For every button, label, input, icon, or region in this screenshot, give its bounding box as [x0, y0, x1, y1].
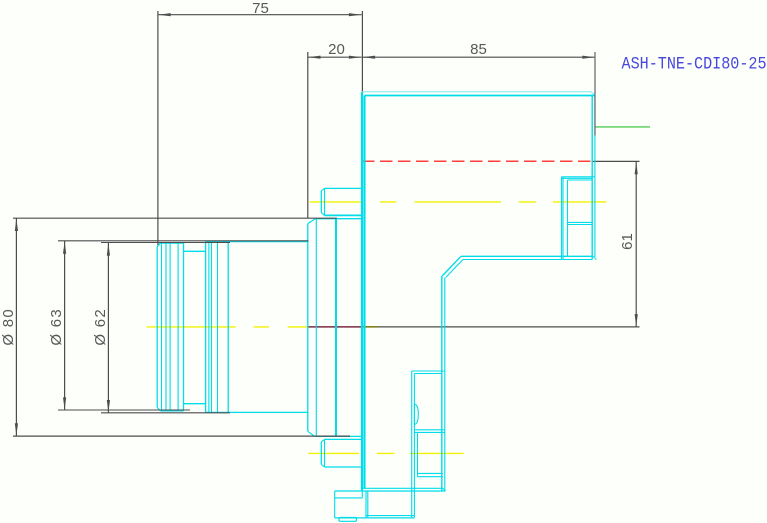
extension line shared 75/20/85 dim	[361, 11, 363, 95]
svg-text:Ø 62: Ø 62	[92, 308, 109, 346]
lower tab centerline yellow dashed	[308, 452, 463, 454]
body bottom edge outer	[363, 487, 443, 489]
dimension line dia62	[107, 243, 109, 413]
svg-text:ASH-TNE-CDI80-250: ASH-TNE-CDI80-250	[622, 53, 767, 74]
svg-text:Ø 63: Ø 63	[48, 308, 65, 346]
clamp box mid edge b	[414, 431, 444, 433]
extension line bottom dia62	[101, 412, 230, 414]
extension line top dia63	[58, 240, 309, 242]
dimension line dia63	[64, 241, 66, 410]
arrow up 61	[635, 162, 638, 175]
arrow left 75	[158, 13, 171, 16]
extension line left of 20 dim	[307, 52, 309, 218]
clamp lower inner left edge	[417, 432, 419, 476]
svg-text:Ø 80: Ø 80	[0, 308, 17, 346]
collet section A right edge	[183, 243, 185, 411]
main centerline yellow dashed	[147, 326, 308, 328]
body top edge outer	[362, 91, 591, 93]
svg-text:61: 61	[619, 233, 636, 250]
clamp lower bottom edge a	[418, 472, 443, 474]
upper tab bottom edge	[325, 214, 363, 216]
arrow up dia80	[15, 219, 18, 232]
arrow right 85	[582, 56, 595, 59]
slot inner bottom edge b	[568, 224, 593, 226]
arrow right 20	[349, 56, 362, 59]
body top edge inner	[365, 95, 595, 97]
red dashed line bore depth	[362, 160, 592, 162]
base step left edge	[334, 491, 336, 518]
base plate bottom edge b	[335, 517, 415, 519]
nut body line 3	[217, 241, 219, 412]
flange top-left chamfer	[308, 219, 316, 224]
body left edge inner	[363, 95, 365, 488]
collet stripe 4	[177, 243, 179, 411]
lower tab top chamfer	[321, 439, 324, 441]
body top-right chamfer	[591, 92, 595, 96]
collet nut left edge	[156, 247, 158, 407]
base step right edge	[361, 491, 363, 498]
slot inner bottom edge a	[568, 221, 593, 223]
upper tab top edge	[325, 187, 363, 189]
collet nut top-left chamfer	[157, 243, 160, 247]
dimension line 20	[308, 56, 362, 58]
upper tab top chamfer	[321, 188, 324, 190]
extension line bottom dia80	[13, 435, 350, 437]
step chamfer inner	[446, 260, 463, 278]
clamp box top edge a	[412, 370, 445, 372]
clamp box top edge b	[414, 373, 441, 375]
dimension line 85	[362, 56, 595, 58]
green reference line	[595, 126, 650, 128]
dimension line 75	[158, 14, 362, 16]
slot inner top edge	[568, 179, 593, 181]
step horizontal outer	[461, 255, 593, 257]
step horizontal inner	[463, 259, 592, 261]
nut groove bottom edge	[184, 403, 206, 405]
body right edge outer	[594, 95, 596, 257]
dimension line 61	[635, 161, 637, 327]
flange bottom edge	[315, 435, 363, 437]
extension line right of 85 dim over body edge	[594, 52, 596, 136]
arrow left 85	[363, 56, 376, 59]
arrow right 75	[349, 13, 362, 16]
svg-text:20: 20	[328, 41, 345, 58]
collet nut bottom-left chamfer	[157, 407, 160, 411]
flange face vertical	[335, 219, 337, 437]
arrow down dia62	[107, 400, 110, 413]
slot top edge b	[562, 177, 593, 179]
lower tab top edge	[325, 438, 363, 440]
extension line top 61 dim	[592, 160, 640, 162]
clamp box mid edge a	[414, 429, 444, 431]
lower tab inner vertical	[324, 439, 326, 467]
body left edge outer	[361, 92, 363, 490]
arrow up dia62	[107, 243, 110, 256]
dimension line dia80	[15, 218, 17, 436]
extension line top dia62	[101, 242, 230, 244]
extension line bottom 61 dim on centerline	[309, 326, 640, 328]
arm inner vertical	[444, 278, 446, 491]
base step bottom edge	[335, 497, 363, 499]
nut body bottom edge	[206, 411, 309, 413]
flange bottom-left chamfer	[308, 431, 315, 436]
extension line top dia80	[13, 217, 337, 219]
step chamfer outer	[442, 256, 461, 276]
clamp lower bottom edge b	[418, 476, 443, 478]
svg-text:85: 85	[470, 41, 487, 58]
base plate left edge b	[367, 491, 369, 518]
body bottom right chamfer	[443, 488, 446, 491]
base plate left edge a	[365, 491, 367, 518]
collet stripe 3	[169, 243, 171, 411]
extension line left of 75 dim	[157, 11, 159, 245]
slot top edge a	[562, 176, 595, 178]
nut body left edge	[205, 242, 207, 413]
base plate bottom edge a	[366, 515, 414, 517]
clamp box outer left edge	[411, 371, 413, 518]
flange top edge	[315, 218, 362, 220]
upper tab bottom chamfer	[321, 213, 324, 216]
nut groove top edge	[184, 250, 206, 252]
centerline overlap maroon segment	[309, 326, 362, 328]
collet section A bottom edge	[160, 410, 183, 412]
arrow up dia63	[63, 241, 66, 254]
slot outer left edge b	[562, 177, 564, 260]
slot inner left edge	[567, 180, 569, 256]
flange inner vertical	[315, 219, 317, 437]
nut body line 4	[227, 241, 229, 412]
lower tab bottom edge	[325, 466, 363, 468]
body bottom edge inner	[335, 490, 446, 492]
collet stripe 1	[161, 243, 163, 411]
body right edge inner	[591, 95, 593, 259]
svg-text:75: 75	[252, 0, 269, 17]
collet section A top edge	[160, 242, 183, 244]
arrow down dia80	[15, 423, 18, 436]
step right chamfer	[593, 256, 596, 259]
centerline overlap olive segment	[362, 326, 378, 328]
arrow down 61	[635, 314, 638, 327]
flange left edge	[307, 224, 309, 432]
upper tab centerline yellow dashed	[310, 201, 607, 203]
extension line bottom dia63	[58, 409, 190, 411]
clamp screw bump	[414, 404, 418, 424]
nut body line 1	[208, 241, 210, 412]
arrow left 20	[308, 56, 321, 59]
lower tab bottom chamfer	[321, 465, 324, 468]
slot outer left edge a	[561, 177, 563, 260]
upper tab left edge	[320, 191, 322, 213]
clamp box inner left edge	[413, 374, 415, 518]
lower tab left edge	[320, 442, 322, 465]
bottom locating tab	[339, 518, 356, 522]
arm left-outer vertical	[441, 276, 443, 491]
upper tab inner vertical	[324, 188, 326, 215]
nut body top edge	[206, 241, 309, 243]
nut body line 2	[211, 241, 213, 412]
collet stripe 2	[165, 243, 167, 411]
arrow down dia63	[63, 397, 66, 410]
